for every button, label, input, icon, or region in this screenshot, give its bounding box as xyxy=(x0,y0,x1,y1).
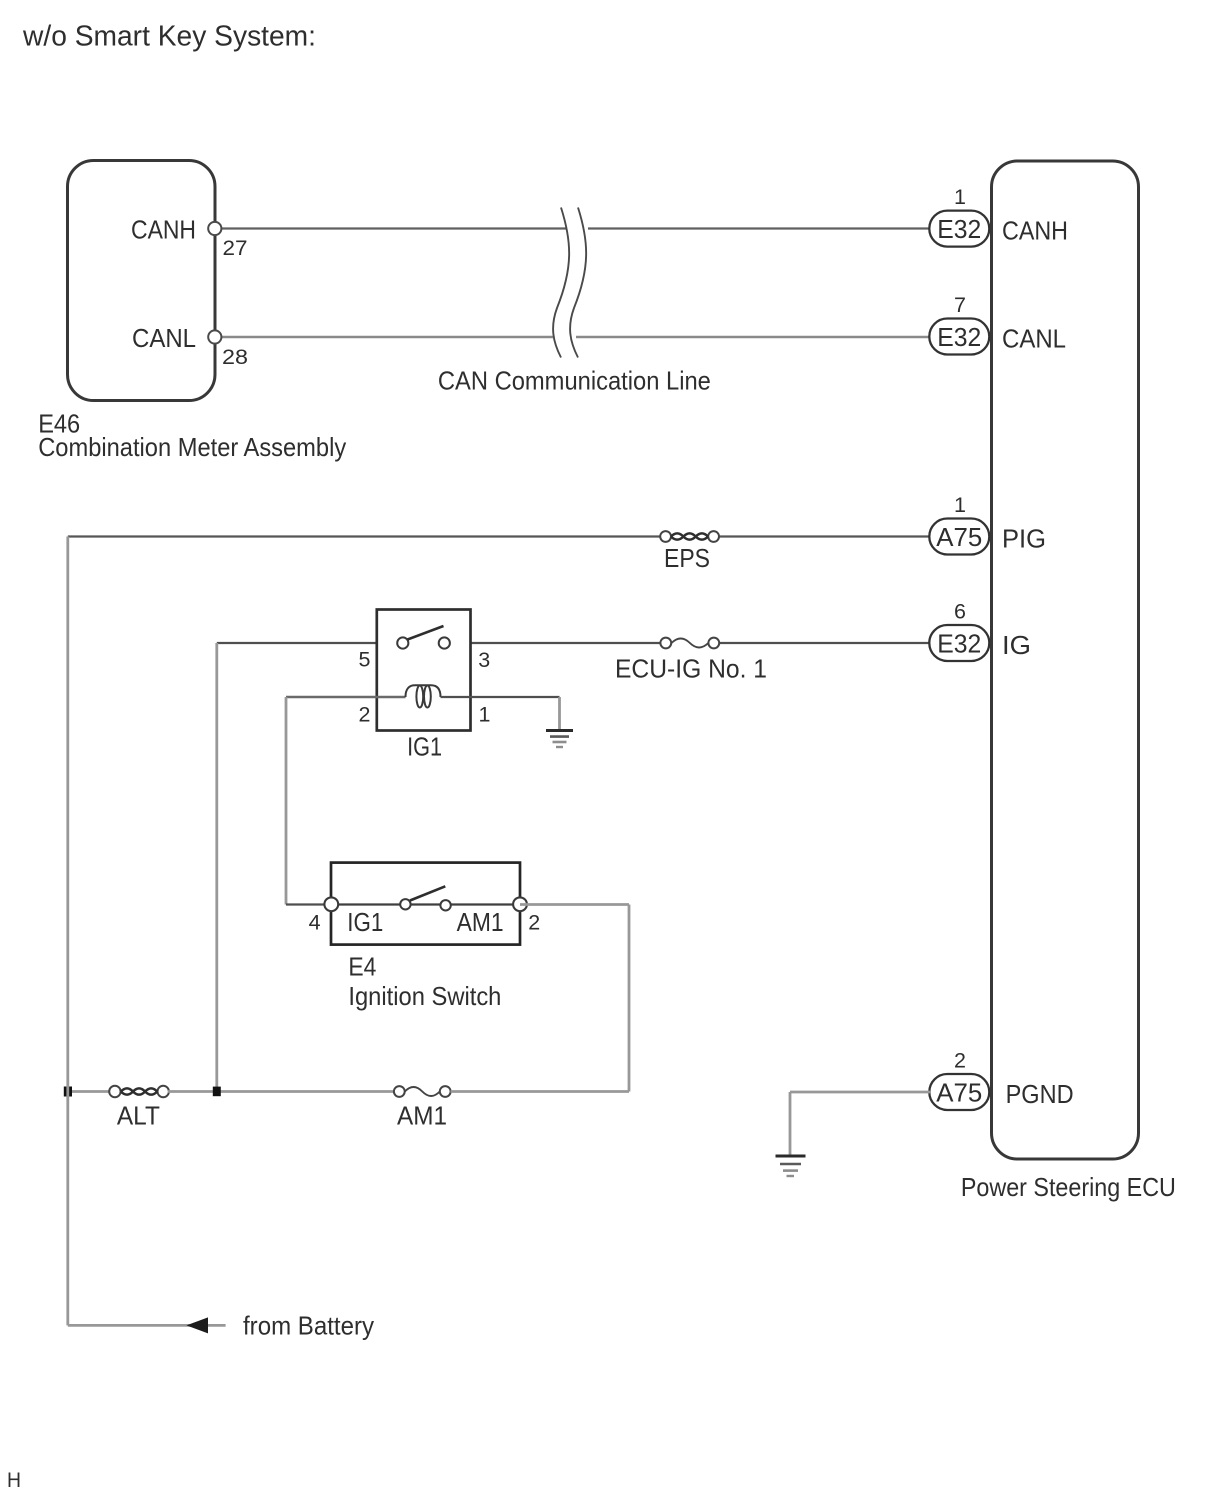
wire CANL (break to ECU E32 pin 7) xyxy=(576,336,930,339)
pin 27 terminal circle on E46 xyxy=(208,222,221,235)
pin 28 terminal circle on E46 xyxy=(208,330,221,343)
svg-text:PGND: PGND xyxy=(1006,1079,1074,1109)
wire PGND to ground xyxy=(790,1091,930,1094)
connector A75 pin 2 (PGND) xyxy=(929,1049,989,1111)
svg-text:CANH: CANH xyxy=(1002,216,1068,246)
svg-text:PIG: PIG xyxy=(1002,524,1046,554)
fuse EPS (fusible link) xyxy=(660,531,719,542)
relay coil xyxy=(406,685,441,707)
arrow from Battery xyxy=(186,1317,208,1333)
wire battery riser vertical xyxy=(66,537,69,1326)
svg-text:E32: E32 xyxy=(937,322,981,352)
wire from ECU-IG fuse to ECU E32 pin 6 xyxy=(719,642,930,644)
wire bottom bus: battery junction to ALT fuse xyxy=(68,1090,110,1093)
svg-text:E32: E32 xyxy=(937,628,981,658)
svg-text:Power Steering ECU: Power Steering ECU xyxy=(961,1172,1176,1202)
svg-text:6: 6 xyxy=(954,600,966,624)
wire CANH (break to ECU E32 pin 1) xyxy=(588,227,930,229)
wire bottom bus: ALT fuse to AM1 fuse xyxy=(168,1090,394,1093)
svg-text:1: 1 xyxy=(479,702,491,726)
svg-text:1: 1 xyxy=(954,185,966,209)
fuse ECU-IG No. 1 xyxy=(660,638,719,649)
connector E32 pin 7 (CANL) xyxy=(929,293,989,355)
svg-text:IG1: IG1 xyxy=(347,907,383,937)
ground symbol (relay coil) xyxy=(546,731,573,748)
ignition switch internal wire xyxy=(331,903,520,905)
wire vertical riser from bottom bus to relay pin 5 xyxy=(215,643,218,1092)
wire ignition switch pin 2 to right riser xyxy=(520,903,629,906)
svg-text:from Battery: from Battery xyxy=(243,1310,374,1340)
fuse ALT (fusible link) xyxy=(109,1086,169,1097)
ignition switch contact circles xyxy=(400,899,410,909)
wire right riser down to bottom bus xyxy=(628,905,631,1092)
svg-text:A75: A75 xyxy=(936,1077,982,1107)
svg-text:IG: IG xyxy=(1002,630,1031,660)
svg-text:27: 27 xyxy=(223,236,248,260)
wire from relay pin 5 to vertical riser xyxy=(217,642,377,644)
ground symbol (PGND) xyxy=(776,1156,806,1176)
svg-text:3: 3 xyxy=(478,648,490,672)
svg-text:H: H xyxy=(7,1469,21,1492)
svg-text:CANL: CANL xyxy=(132,323,196,353)
svg-text:7: 7 xyxy=(954,293,966,317)
svg-text:w/o Smart Key System:: w/o Smart Key System: xyxy=(22,21,316,53)
svg-text:1: 1 xyxy=(954,493,966,517)
svg-text:2: 2 xyxy=(954,1049,966,1073)
svg-text:ALT: ALT xyxy=(117,1101,160,1131)
svg-text:EPS: EPS xyxy=(664,543,710,573)
svg-text:CANL: CANL xyxy=(1002,324,1066,354)
junction node at battery riser x=67.8 xyxy=(64,1087,72,1097)
wire to ignition switch pin 4 xyxy=(286,903,331,905)
relay IG1 box xyxy=(377,610,471,731)
connector E32 pin 6 (IG) xyxy=(929,600,989,662)
ignition switch pin 2 terminal xyxy=(513,897,527,911)
connector A75 pin 1 (PIG) xyxy=(929,493,989,555)
relay switch blade xyxy=(408,626,444,640)
wire CANL (E46 pin 28 to break) xyxy=(221,336,553,339)
wire relay coil pin 2 horizontal xyxy=(286,696,406,698)
wire PIG from EPS fuse to ECU A75 pin 1 xyxy=(719,535,930,537)
svg-text:5: 5 xyxy=(359,648,371,672)
fuse AM1 xyxy=(394,1086,451,1097)
svg-text:AM1: AM1 xyxy=(397,1101,447,1131)
break symbol on CAN communication lines xyxy=(553,208,586,358)
svg-text:E32: E32 xyxy=(937,214,981,244)
svg-text:28: 28 xyxy=(222,345,248,369)
svg-text:A75: A75 xyxy=(936,522,982,552)
wire PIG from junction to EPS fuse xyxy=(68,535,661,537)
ignition switch blade xyxy=(410,886,445,900)
svg-text:E4: E4 xyxy=(348,952,376,982)
svg-text:ECU-IG No. 1: ECU-IG No. 1 xyxy=(615,654,767,684)
ignition switch E4 box xyxy=(331,863,520,945)
wire relay pin 2 vertical to ignition switch xyxy=(285,697,288,905)
wire from relay pin 3 to ECU-IG fuse xyxy=(471,642,662,644)
wire CANH (E46 pin 27 to break) xyxy=(221,227,566,229)
svg-text:IG1: IG1 xyxy=(407,731,442,761)
svg-text:AM1: AM1 xyxy=(457,907,504,937)
svg-text:Combination Meter Assembly: Combination Meter Assembly xyxy=(38,432,346,462)
wire relay coil pin 1 to ground xyxy=(441,696,560,698)
junction node at riser x=216.8 xyxy=(213,1087,221,1097)
connector E32 pin 1 (CANH) xyxy=(929,185,989,247)
wire bottom bus: AM1 fuse to right riser xyxy=(451,1090,630,1093)
wire battery horizontal to arrow xyxy=(68,1324,226,1327)
svg-text:Ignition Switch: Ignition Switch xyxy=(348,981,501,1011)
svg-text:2: 2 xyxy=(528,911,540,935)
svg-text:CAN Communication Line: CAN Communication Line xyxy=(438,366,711,396)
relay switch contact circles xyxy=(397,637,408,648)
svg-text:4: 4 xyxy=(309,911,321,935)
box Power Steering ECU xyxy=(992,161,1139,1159)
ignition switch pin 4 terminal xyxy=(324,897,338,911)
box E46 Combination Meter Assembly xyxy=(68,161,216,401)
svg-text:CANH: CANH xyxy=(131,215,196,245)
svg-text:2: 2 xyxy=(359,702,371,726)
